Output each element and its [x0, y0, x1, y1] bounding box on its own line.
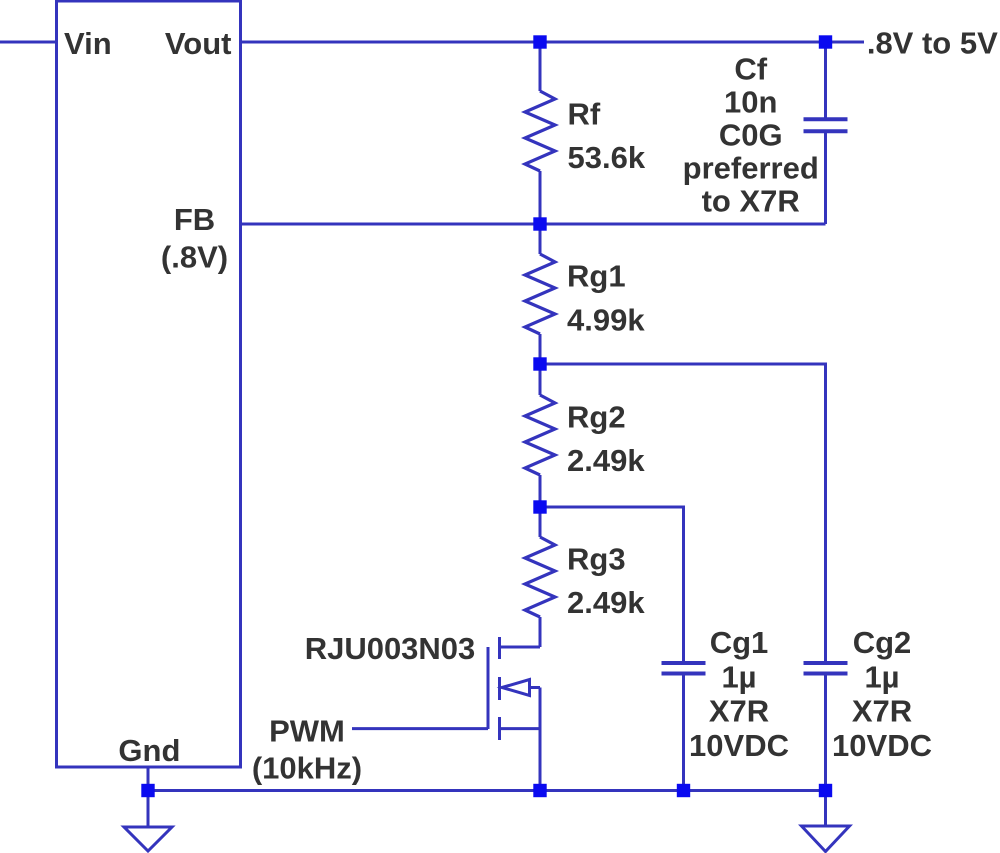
- svg-text:1µ: 1µ: [721, 659, 756, 694]
- svg-text:Vin: Vin: [64, 26, 112, 61]
- svg-text:Cf: Cf: [734, 52, 767, 87]
- svg-text:1µ: 1µ: [864, 659, 899, 694]
- svg-text:4.99k: 4.99k: [567, 303, 645, 338]
- svg-text:preferred: preferred: [683, 151, 819, 186]
- svg-text:Rg1: Rg1: [567, 259, 626, 294]
- svg-text:Vout: Vout: [165, 26, 232, 61]
- svg-text:Rf: Rf: [568, 96, 601, 131]
- svg-text:RJU003N03: RJU003N03: [305, 631, 476, 666]
- svg-text:C0G: C0G: [719, 118, 783, 153]
- svg-text:PWM: PWM: [269, 714, 345, 749]
- svg-text:Rg2: Rg2: [567, 400, 626, 435]
- svg-text:(.8V): (.8V): [161, 240, 228, 275]
- svg-text:Cg1: Cg1: [710, 625, 769, 660]
- svg-text:to X7R: to X7R: [702, 184, 800, 219]
- svg-text:Gnd: Gnd: [118, 733, 180, 768]
- svg-text:10n: 10n: [724, 85, 777, 120]
- svg-text:10VDC: 10VDC: [832, 728, 932, 763]
- svg-text:FB: FB: [174, 202, 215, 237]
- svg-text:.8V to 5V: .8V to 5V: [867, 26, 998, 61]
- svg-text:(10kHz): (10kHz): [252, 751, 362, 786]
- svg-text:Cg2: Cg2: [853, 625, 912, 660]
- svg-text:X7R: X7R: [709, 694, 769, 729]
- svg-text:2.49k: 2.49k: [567, 443, 645, 478]
- svg-text:2.49k: 2.49k: [567, 585, 645, 620]
- svg-text:X7R: X7R: [852, 694, 912, 729]
- svg-text:Rg3: Rg3: [567, 541, 626, 576]
- svg-text:53.6k: 53.6k: [568, 140, 646, 175]
- svg-text:10VDC: 10VDC: [689, 728, 789, 763]
